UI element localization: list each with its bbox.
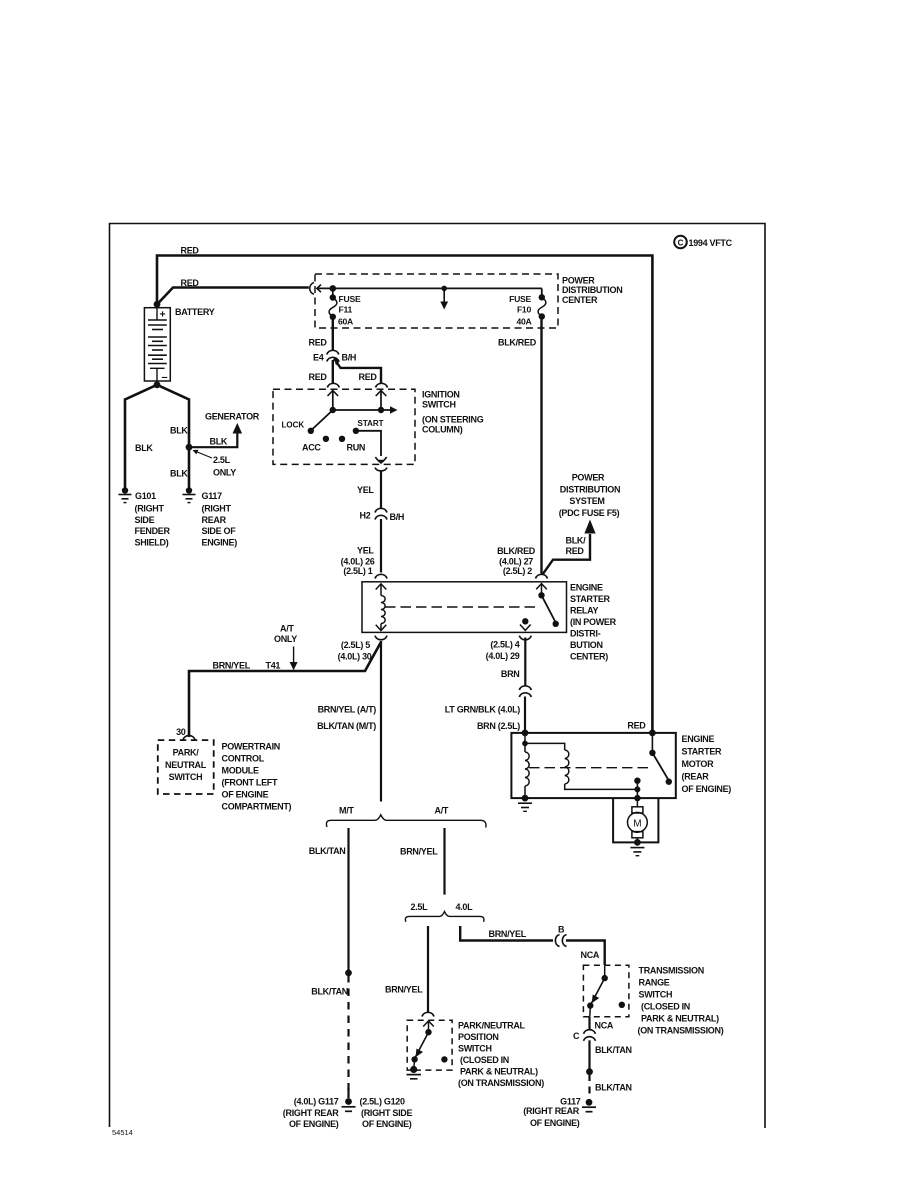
svg-text:START: START: [358, 419, 384, 428]
node F11 tap: [330, 285, 337, 292]
wire START to ignition box bottom: [356, 431, 381, 456]
relay internal dashed link: [385, 606, 539, 608]
svg-text:PARK & NEUTRAL): PARK & NEUTRAL): [460, 1067, 538, 1077]
svg-text:B/H: B/H: [342, 353, 357, 363]
fuse F10 labels: [509, 294, 531, 327]
svg-text:54514: 54514: [112, 1128, 133, 1137]
wire BLK to generator: [189, 432, 237, 447]
ground bottom left labels 2.5L G120: [360, 1097, 413, 1130]
svg-text:OF ENGINE): OF ENGINE): [362, 1119, 412, 1129]
svg-text:NCA: NCA: [581, 950, 600, 960]
P/N position switch labels: [458, 1021, 544, 1089]
ignition switch dashed box: [273, 389, 415, 464]
wire BLK/TAN M/T branch solid: [347, 828, 349, 973]
svg-text:F10: F10: [517, 305, 532, 315]
generator arrow: [233, 423, 243, 434]
connector arc relay pin 4/29: [519, 636, 531, 640]
arrowhead into E4: [334, 357, 341, 365]
power distribution center dashed box: [315, 274, 558, 328]
svg-text:B: B: [558, 925, 565, 935]
svg-text:FUSE: FUSE: [339, 294, 361, 304]
motor internal dashed link: [529, 767, 650, 769]
svg-text:BLK: BLK: [170, 426, 188, 436]
svg-text:RED: RED: [309, 338, 328, 348]
ignition switch labels: [422, 390, 484, 435]
svg-text:SWITCH: SWITCH: [169, 772, 203, 782]
svg-text:SWITCH: SWITCH: [458, 1044, 492, 1054]
svg-text:YEL: YEL: [357, 546, 374, 556]
svg-text:–: –: [162, 372, 168, 384]
node 2.5L-only junction: [186, 444, 193, 451]
ground at P/N position switch: [407, 1066, 422, 1079]
TRS labels: [638, 966, 724, 1036]
wire YEL ignition to H2: [380, 472, 382, 509]
ground at motor: [630, 839, 644, 856]
svg-text:B/H: B/H: [390, 512, 405, 522]
svg-text:BATTERY: BATTERY: [175, 307, 215, 317]
svg-text:FUSE: FUSE: [509, 294, 531, 304]
svg-text:(RIGHT REAR: (RIGHT REAR: [283, 1108, 339, 1118]
bullet before (CLOSED IN at P/N switch: [441, 1056, 447, 1062]
ground G101: [119, 487, 132, 502]
motor M symbol: [628, 795, 648, 843]
svg-text:2.5L: 2.5L: [411, 902, 429, 912]
note A/T ONLY with arrow: [274, 624, 298, 671]
ground G117 right labels: [523, 1097, 580, 1129]
wire center from relay pin 5/30 down to brace: [380, 641, 382, 802]
wire PDC internal bus: [318, 287, 542, 289]
ground bottom left labels 4.0L G117: [283, 1097, 339, 1130]
svg-text:4.0L: 4.0L: [456, 902, 474, 912]
svg-text:PARK/NEUTRAL: PARK/NEUTRAL: [458, 1021, 526, 1031]
svg-text:POSITION: POSITION: [458, 1032, 499, 1042]
svg-text:OF ENGINE): OF ENGINE): [289, 1119, 339, 1129]
svg-text:SWITCH: SWITCH: [422, 399, 456, 409]
brace 2.5L 4.0L: [405, 912, 484, 922]
svg-text:(RIGHT REAR: (RIGHT REAR: [523, 1106, 579, 1116]
svg-text:BLK: BLK: [135, 443, 153, 453]
svg-text:ACC: ACC: [302, 443, 321, 453]
wire BLK/TAN dashed to ground G117 right: [588, 1074, 590, 1098]
svg-text:DISTRIBUTION: DISTRIBUTION: [562, 285, 622, 295]
park/neutral switch dashed box (in PCM): [158, 740, 214, 794]
svg-text:CENTER: CENTER: [562, 295, 598, 305]
svg-text:POWER: POWER: [562, 276, 595, 286]
PDS arrow: [584, 520, 595, 534]
park/neutral position switch dashed box: [407, 1020, 452, 1070]
svg-text:(REAR: (REAR: [682, 772, 710, 782]
svg-text:2.5L: 2.5L: [213, 455, 231, 465]
svg-text:A/T: A/T: [435, 806, 449, 816]
svg-text:COLUMN): COLUMN): [422, 424, 463, 434]
ground G117 left labels: [202, 491, 238, 547]
power distribution system labels: [559, 473, 621, 518]
park/neutral switch inner labels: [165, 748, 207, 783]
svg-text:SYSTEM: SYSTEM: [569, 496, 604, 506]
svg-text:ENGINE: ENGINE: [570, 583, 603, 593]
svg-text:M: M: [633, 818, 641, 829]
svg-text:SIDE: SIDE: [135, 515, 155, 525]
svg-text:T41: T41: [266, 661, 281, 671]
wire to transmission range switch: [566, 941, 605, 966]
svg-text:YEL: YEL: [357, 485, 374, 495]
PDC labels: [562, 276, 622, 305]
svg-text:+: +: [160, 309, 166, 321]
svg-text:1994 VFTC: 1994 VFTC: [689, 238, 733, 248]
wire LT GRN/BLK to starter motor: [524, 697, 526, 733]
connector arc relay pin 1: [375, 574, 387, 578]
svg-text:OF ENGINE: OF ENGINE: [222, 790, 269, 800]
connector arc ignition right pin: [376, 383, 388, 387]
svg-text:60A: 60A: [338, 317, 353, 327]
wire RED second feed (battery to PDC): [158, 288, 309, 304]
svg-text:C: C: [678, 239, 684, 248]
motor M enclosure: [613, 798, 658, 842]
svg-text:POWER: POWER: [572, 473, 605, 483]
svg-text:SWITCH: SWITCH: [639, 990, 673, 1000]
svg-text:(ON TRANSMISSION): (ON TRANSMISSION): [638, 1026, 724, 1036]
node splice G117 right: [586, 1068, 593, 1075]
wire BLK battery negative right branch to G117: [157, 385, 189, 489]
svg-text:(RIGHT SIDE: (RIGHT SIDE: [361, 1108, 412, 1118]
svg-text:BRN/YEL: BRN/YEL: [213, 661, 251, 671]
connector B inline: [555, 935, 566, 947]
svg-text:(CLOSED IN: (CLOSED IN: [641, 1002, 690, 1012]
svg-text:BRN: BRN: [501, 669, 520, 679]
brace M/T A/T: [326, 815, 486, 828]
wire BLK battery negative left branch to G101: [125, 385, 157, 489]
connector arc ignition left pin: [327, 383, 339, 387]
svg-text:BRN/YEL: BRN/YEL: [400, 847, 438, 857]
ground G117 right: [582, 1099, 596, 1112]
svg-text:MOTOR: MOTOR: [682, 759, 715, 769]
relay switch: [520, 584, 559, 631]
svg-text:RED: RED: [627, 721, 646, 731]
wire BLK/RED branch to power distribution system: [543, 534, 591, 575]
svg-text:CENTER): CENTER): [570, 652, 608, 662]
svg-text:BLK/TAN: BLK/TAN: [309, 846, 346, 856]
ignition right pin entry arrow: [376, 391, 387, 411]
svg-text:BLK/TAN: BLK/TAN: [595, 1083, 632, 1093]
PDC spare feed arrow: [440, 286, 448, 310]
svg-text:(2.5L) 4: (2.5L) 4: [490, 640, 519, 650]
svg-text:REAR: REAR: [202, 515, 227, 525]
note 2.5L ONLY with pointer arrow: [193, 450, 237, 478]
svg-text:TRANSMISSION: TRANSMISSION: [639, 966, 704, 976]
powertrain control module labels: [222, 742, 292, 812]
svg-text:E4: E4: [313, 353, 324, 363]
connector arc at P/N position switch: [422, 1012, 434, 1016]
wire TRS to C connector: [588, 1017, 590, 1030]
svg-text:RED: RED: [359, 372, 378, 382]
wire RED left branch from E4 to ignition switch: [332, 360, 334, 383]
wire BLK/RED from F10 down to relay pin 2: [540, 317, 542, 574]
svg-text:OF ENGINE): OF ENGINE): [682, 784, 732, 794]
svg-text:G101: G101: [135, 491, 156, 501]
svg-text:MODULE: MODULE: [222, 766, 259, 776]
svg-text:40A: 40A: [516, 317, 531, 327]
svg-text:POWERTRAIN: POWERTRAIN: [222, 742, 281, 752]
svg-text:(2.5L) 2: (2.5L) 2: [503, 566, 532, 576]
starter motor switch: [634, 733, 672, 798]
wire BRN relay to connector: [524, 638, 526, 686]
svg-text:F11: F11: [339, 305, 353, 315]
svg-text:SHIELD): SHIELD): [135, 537, 169, 547]
fuse F11: [329, 288, 337, 320]
svg-text:RELAY: RELAY: [570, 606, 598, 616]
svg-text:PARK & NEUTRAL): PARK & NEUTRAL): [641, 1014, 719, 1024]
svg-text:RED: RED: [309, 372, 328, 382]
svg-text:ENGINE: ENGINE: [682, 734, 715, 744]
svg-text:ENGINE): ENGINE): [202, 537, 238, 547]
starter solenoid pull-in coil: [522, 733, 529, 798]
svg-text:GENERATOR: GENERATOR: [205, 412, 260, 422]
svg-text:(RIGHT: (RIGHT: [135, 504, 165, 514]
connector arc relay pin 2: [536, 574, 548, 578]
wire RED from F11 down to E4: [332, 317, 334, 350]
node M/T splice: [345, 970, 352, 977]
node START: [353, 428, 359, 434]
connector at PDC left edge: [310, 283, 321, 295]
TRS internals: [587, 965, 608, 1016]
svg-text:(4.0L) 27: (4.0L) 27: [499, 557, 533, 567]
svg-text:(2.5L) G120: (2.5L) G120: [360, 1097, 406, 1107]
fuse F10: [538, 288, 546, 319]
wire RED top feed (battery to starter motor vertical): [157, 256, 652, 733]
wire BRN/YEL 4.0L branch: [460, 926, 553, 941]
svg-text:RED: RED: [566, 546, 585, 556]
svg-text:RED: RED: [181, 278, 200, 288]
node RUN: [339, 436, 345, 442]
svg-text:M/T: M/T: [339, 806, 354, 816]
svg-text:FENDER: FENDER: [135, 526, 171, 536]
connector H2 B/H: [375, 508, 387, 519]
node ACC: [323, 436, 329, 442]
svg-text:RED: RED: [181, 246, 200, 256]
svg-text:(RIGHT: (RIGHT: [202, 504, 232, 514]
svg-text:A/T: A/T: [280, 624, 294, 634]
svg-text:LT GRN/BLK (4.0L): LT GRN/BLK (4.0L): [445, 705, 521, 715]
svg-text:(ON STEERING: (ON STEERING: [422, 414, 484, 424]
ground G117/G120 bottom left: [342, 1088, 356, 1111]
svg-text:RANGE: RANGE: [639, 978, 670, 988]
svg-text:NEUTRAL: NEUTRAL: [165, 760, 207, 770]
svg-text:BLK/: BLK/: [566, 536, 587, 546]
connector C inline: [584, 1030, 596, 1041]
copyright 1994 VFTC: [674, 236, 732, 249]
P/N position switch internals: [411, 1021, 433, 1069]
svg-text:BLK/RED: BLK/RED: [497, 546, 536, 556]
ignition internal bus wire: [330, 406, 398, 413]
fuse F11 labels: [338, 294, 361, 327]
svg-text:BRN/YEL (A/T): BRN/YEL (A/T): [318, 705, 377, 715]
connector E4 B/H: [327, 350, 339, 361]
connector arc relay pin 5/30: [375, 636, 387, 640]
svg-text:BLK: BLK: [210, 437, 228, 447]
svg-text:BUTION: BUTION: [570, 640, 603, 650]
svg-text:BLK/TAN (M/T): BLK/TAN (M/T): [317, 721, 376, 731]
svg-text:BLK: BLK: [170, 469, 188, 479]
svg-text:(4.0L) 29: (4.0L) 29: [486, 651, 520, 661]
svg-text:NCA: NCA: [595, 1021, 614, 1031]
wire BRN/YEL T41 to relay pin 5/30: [189, 642, 381, 738]
border frame (left, top, right): [110, 224, 766, 1129]
node motor feed right: [649, 730, 656, 737]
svg-text:LOCK: LOCK: [282, 421, 305, 430]
svg-text:(4.0L) 26: (4.0L) 26: [341, 557, 375, 567]
svg-text:30: 30: [176, 727, 186, 737]
node motor feed left: [522, 730, 529, 737]
svg-text:(PDC FUSE F5): (PDC FUSE F5): [559, 508, 620, 518]
relay labels: [570, 583, 617, 662]
svg-text:(FRONT LEFT: (FRONT LEFT: [222, 778, 278, 788]
svg-text:C: C: [573, 1031, 580, 1041]
wire RED right branch from E4 to ignition switch: [334, 359, 381, 384]
svg-text:DISTRI-: DISTRI-: [570, 629, 601, 639]
svg-text:CONTROL: CONTROL: [222, 754, 265, 764]
ground at solenoid coil: [518, 795, 532, 812]
wire BLK/TAN below C: [588, 1040, 590, 1069]
svg-text:BLK/TAN: BLK/TAN: [595, 1045, 632, 1055]
ground G101 labels: [135, 491, 171, 547]
wire BRN/YEL A/T branch: [443, 828, 445, 895]
relay coil: [376, 584, 387, 631]
svg-text:SIDE OF: SIDE OF: [202, 526, 237, 536]
svg-text:STARTER: STARTER: [570, 594, 611, 604]
engine starter motor box: [511, 733, 675, 798]
svg-text:ONLY: ONLY: [274, 634, 297, 644]
svg-text:ONLY: ONLY: [213, 468, 236, 478]
ignition exit arrow down: [375, 457, 386, 463]
svg-text:(4.0L) G117: (4.0L) G117: [294, 1097, 339, 1107]
svg-text:RUN: RUN: [347, 443, 366, 453]
svg-text:(2.5L) 5: (2.5L) 5: [341, 640, 370, 650]
svg-text:G117: G117: [202, 491, 223, 501]
wire BRN/YEL 2.5L branch: [427, 926, 429, 1012]
svg-text:BLK/RED: BLK/RED: [498, 338, 537, 348]
starter solenoid hold-in coil: [525, 743, 640, 792]
svg-text:BRN/YEL: BRN/YEL: [489, 929, 527, 939]
connector arc below ignition box: [375, 468, 387, 471]
svg-text:STARTER: STARTER: [682, 746, 723, 756]
battery B1: [144, 301, 170, 388]
svg-text:(IN POWER: (IN POWER: [570, 617, 617, 627]
svg-text:IGNITION: IGNITION: [422, 390, 460, 400]
ignition left pin entry arrow: [328, 391, 339, 411]
svg-text:(ON TRANSMISSION): (ON TRANSMISSION): [458, 1078, 544, 1088]
wire BLK/TAN dashed to G117/G120 ground: [347, 975, 349, 1094]
svg-text:(2.5L) 1: (2.5L) 1: [343, 566, 372, 576]
svg-text:BLK/TAN: BLK/TAN: [311, 987, 348, 997]
svg-text:DISTRIBUTION: DISTRIBUTION: [560, 484, 620, 494]
ignition LOCK blade: [308, 410, 333, 434]
svg-text:(CLOSED IN: (CLOSED IN: [460, 1055, 509, 1065]
svg-text:COMPARTMENT): COMPARTMENT): [222, 802, 292, 812]
svg-text:(4.0L) 30: (4.0L) 30: [338, 652, 372, 662]
ground G117 left: [183, 487, 196, 502]
wire YEL H2 to relay pin 1: [380, 519, 382, 573]
starter motor labels: [682, 734, 732, 794]
svg-text:BRN/YEL: BRN/YEL: [385, 985, 423, 995]
transmission range switch dashed box: [583, 965, 629, 1016]
connector arc at PCM pin 30: [183, 736, 195, 740]
svg-text:BRN (2.5L): BRN (2.5L): [477, 721, 520, 731]
engine starter relay box: [362, 582, 567, 633]
svg-text:H2: H2: [360, 511, 371, 521]
svg-text:PARK/: PARK/: [173, 748, 200, 758]
bullet before (CLOSED IN at TRS: [619, 1002, 625, 1008]
svg-text:OF ENGINE): OF ENGINE): [530, 1118, 580, 1128]
inline connector on BRN wire: [519, 686, 531, 697]
